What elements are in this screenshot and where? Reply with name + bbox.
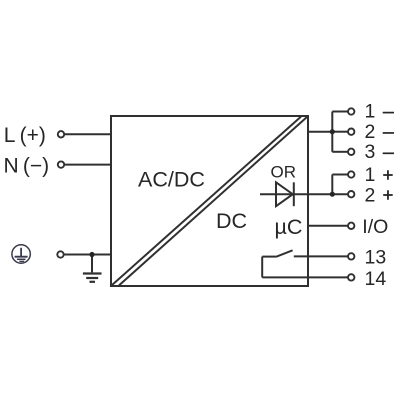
svg-text:DC: DC (216, 209, 247, 233)
svg-text:I/O: I/O (362, 216, 388, 238)
wire diode output to terminal 2+ (260, 193, 348, 195)
svg-text:1: 1 (365, 164, 376, 186)
minus sign of label 3- (383, 152, 394, 154)
diagonal separator line 2 (119, 117, 307, 286)
junction dot minus bus (330, 129, 335, 134)
relay contact K1 left vertical wire (261, 257, 263, 278)
junction dot PE (89, 252, 94, 257)
wire PE ground stub (91, 255, 93, 273)
terminal circle I/O (348, 223, 354, 229)
wire to terminal 1- (332, 111, 348, 113)
terminal circle 1- (348, 108, 354, 114)
terminal circle L (58, 131, 64, 137)
wire to terminal 13 (294, 255, 348, 257)
terminal circle 13 (348, 253, 354, 259)
svg-text:2: 2 (365, 184, 376, 206)
svg-text:AC/DC: AC/DC (138, 168, 205, 192)
wire to terminal 14 (262, 276, 348, 278)
plus sign of label 2+ (383, 194, 393, 196)
terminal circle 14 (348, 274, 354, 280)
svg-text:2: 2 (365, 121, 376, 143)
svg-text:N (−): N (−) (4, 155, 50, 178)
terminal circle 2- (348, 129, 354, 135)
wire PE input (64, 254, 111, 256)
relay contact K1 blade (276, 250, 293, 256)
wire to terminal 3- (332, 151, 348, 153)
terminal circle N (58, 161, 64, 167)
svg-text:3: 3 (365, 141, 376, 163)
svg-text:13: 13 (365, 247, 387, 269)
wire minus output from box (308, 131, 332, 133)
converter box U1 (AC/DC power supply) (111, 116, 308, 286)
wire to terminal 1+ (332, 174, 348, 176)
terminal circle 3- (348, 149, 354, 155)
wire L input (65, 133, 112, 135)
terminal circle 2+ (348, 191, 354, 197)
wire N input (65, 164, 112, 166)
minus sign of label 1- (383, 112, 394, 114)
diode D1 cathode bar (293, 182, 295, 206)
relay contact K1 top lead (262, 256, 276, 258)
minus sign of label 2- (383, 132, 394, 134)
terminal circle 1+ (348, 171, 354, 177)
diode D1 (OR-ing diode) triangle (276, 182, 293, 206)
wire plus bus vertical (331, 175, 333, 195)
svg-text:OR: OR (271, 163, 297, 182)
PE protective earth symbol (circled ground) (12, 245, 30, 263)
ground symbol (83, 274, 102, 282)
diagonal separator line 1 (112, 117, 301, 286)
terminal circle PE (57, 251, 63, 257)
junction dot plus bus (330, 192, 335, 197)
svg-text:µC: µC (275, 215, 303, 239)
svg-text:14: 14 (365, 268, 387, 290)
plus sign of label 1+ (383, 174, 393, 176)
wire minus bus vertical (331, 112, 333, 152)
wire to terminal 2- (332, 131, 348, 133)
svg-text:1: 1 (365, 101, 376, 123)
svg-text:L (+): L (+) (4, 124, 46, 147)
wire I/O (308, 225, 348, 227)
